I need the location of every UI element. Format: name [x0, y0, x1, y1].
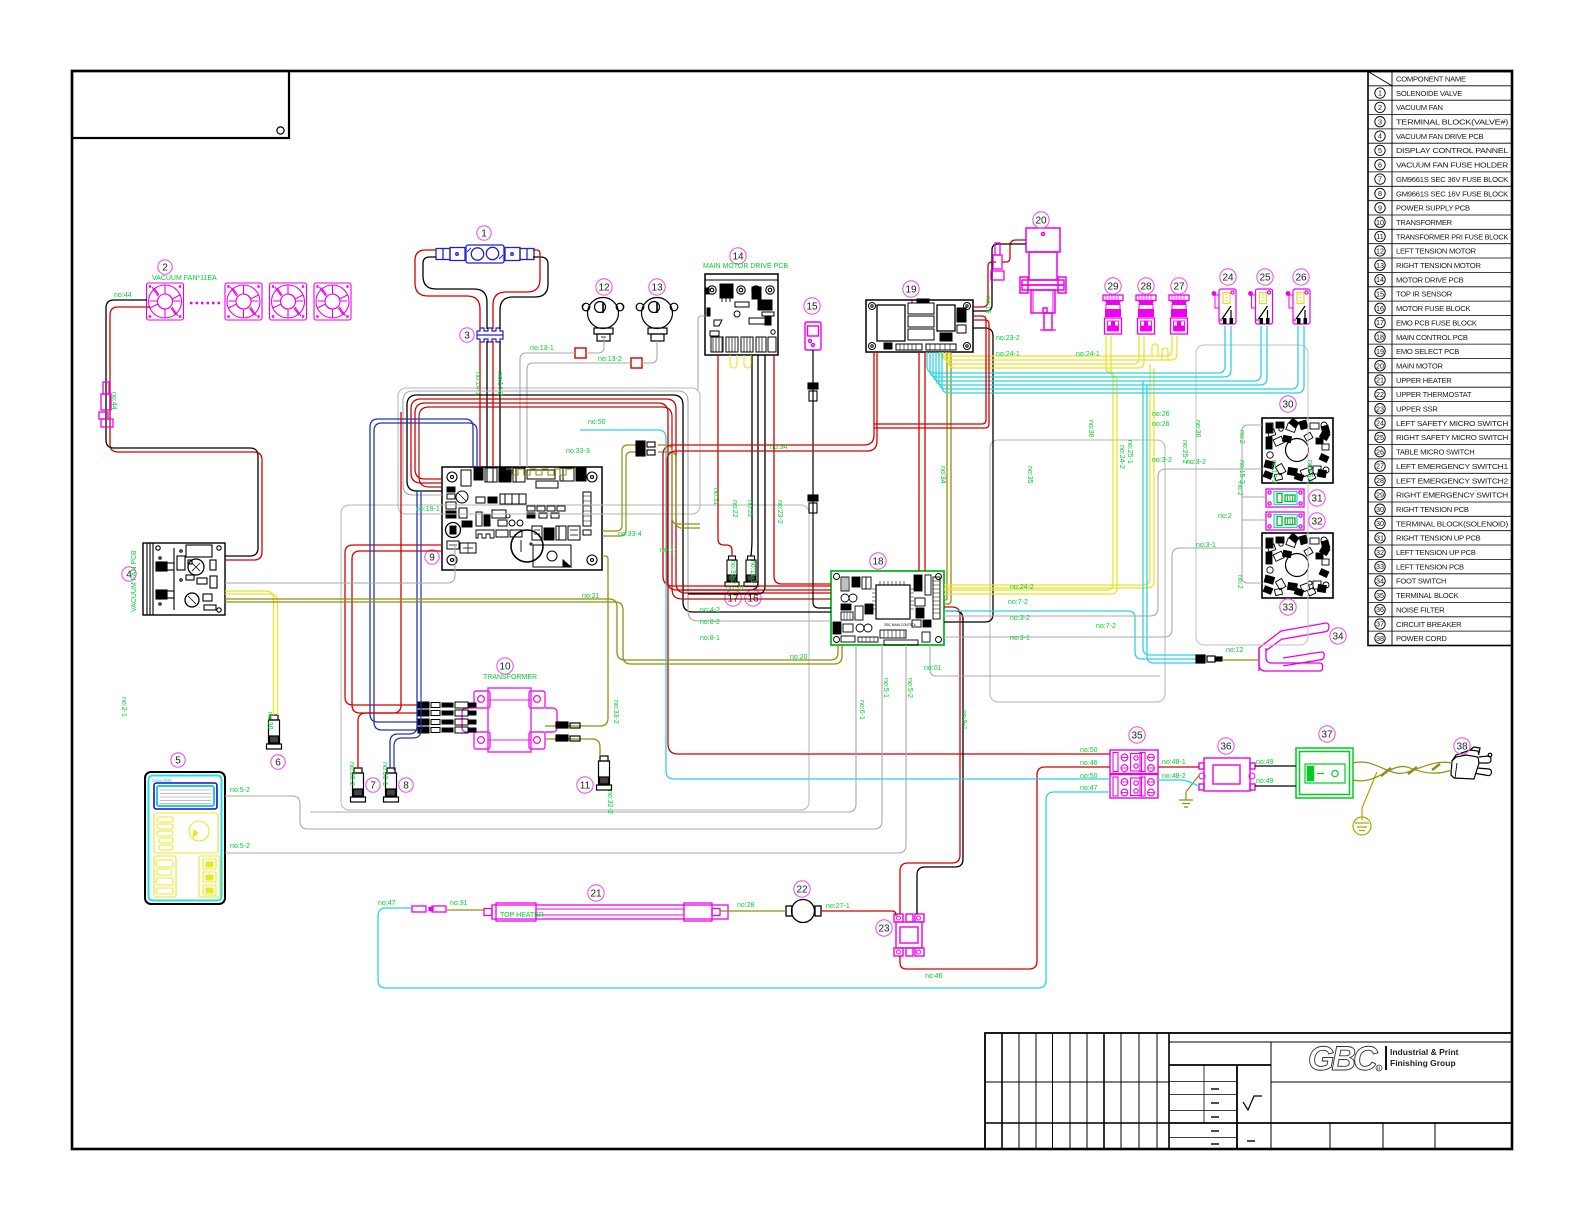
wire no:24-1 yellow b: [943, 336, 1177, 360]
svg-text:UPPER SSR: UPPER SSR: [1396, 405, 1438, 414]
wire pcb14 black pair2: [688, 355, 765, 594]
wire no:25-1 yellow c: [946, 336, 1139, 364]
EMO select PCB (item 19): [866, 299, 973, 352]
svg-text:7: 7: [1378, 175, 1382, 184]
svg-text:no:15-2: no:15-2: [1238, 460, 1245, 484]
svg-text:25: 25: [1259, 272, 1271, 283]
vacuum fan drive PCB (item 4): [143, 543, 225, 615]
wire no:34 red right pair a: [874, 316, 986, 424]
svg-text:no:27-1: no:27-1: [826, 903, 850, 910]
wire no:35 red bundle: [411, 399, 831, 593]
wire no:8-2 gray bundle: [403, 391, 831, 621]
svg-text:no:50: no:50: [1080, 747, 1098, 754]
svg-text:no:24-1: no:24-1: [996, 351, 1020, 358]
svg-text:19: 19: [1376, 347, 1384, 356]
noise filter (item 36): [1199, 758, 1255, 791]
svg-text:31: 31: [1311, 493, 1323, 504]
wire valve red right: [493, 250, 540, 329]
ground symbol near power cord: [1353, 772, 1377, 835]
svg-text:15: 15: [1376, 290, 1384, 299]
wire no:13-1 gray: [225, 545, 455, 583]
balloon 32: [1309, 513, 1325, 529]
right safety micro switch (item 25): [1249, 289, 1273, 324]
svg-text:no:31: no:31: [450, 900, 468, 907]
svg-text:no:3-1: no:3-1: [1196, 542, 1216, 549]
svg-text:LEFT TENSION MOTOR: LEFT TENSION MOTOR: [1396, 247, 1477, 256]
svg-text:no:46: no:46: [1080, 760, 1098, 767]
svg-text:EMO SELECT PCB: EMO SELECT PCB: [1396, 347, 1459, 356]
svg-text:3: 3: [464, 330, 470, 341]
balloon 17: [725, 590, 741, 606]
wire valve red left: [415, 250, 480, 329]
svg-text:no:23-2: no:23-2: [996, 335, 1020, 342]
svg-text:31: 31: [1376, 534, 1384, 543]
power supply PCB (item 9): [442, 467, 602, 570]
balloon 12: [596, 279, 612, 295]
svg-text:26: 26: [1295, 272, 1307, 283]
svg-text:GBC: GBC: [1308, 1040, 1378, 1078]
wire no:35 red D: [924, 352, 926, 571]
foot switch connector: [1196, 655, 1222, 663]
svg-text:13: 13: [1376, 261, 1384, 270]
balloon 4: [122, 567, 136, 581]
wire pcb14 black A: [751, 355, 752, 556]
left tension motor (item 12): [582, 298, 624, 342]
svg-text:R: R: [1377, 1067, 1381, 1073]
wire no:34 red A: [663, 352, 874, 586]
svg-text:no:50: no:50: [1080, 773, 1098, 780]
balloon 14: [730, 248, 746, 264]
main control PCB (item 18): [831, 571, 944, 645]
svg-text:no:3-2: no:3-2: [1152, 457, 1172, 464]
wire motor12 to pcb9: [520, 353, 575, 467]
balloon 37: [1319, 726, 1335, 742]
svg-text:32: 32: [1376, 548, 1384, 557]
svg-text:33: 33: [1376, 562, 1384, 571]
svg-text:no:26: no:26: [1152, 421, 1170, 428]
svg-text:no:15-1: no:15-1: [1306, 460, 1313, 484]
svg-text:no:49: no:49: [1256, 759, 1274, 766]
svg-text:27: 27: [1376, 462, 1384, 471]
left emergency switch1 (item 27): [1169, 295, 1189, 334]
svg-text:no:5-2: no:5-2: [230, 787, 250, 794]
left tension PCB (item 33): [1262, 533, 1333, 598]
svg-text:no:19-1: no:19-1: [416, 506, 440, 513]
green wire number labels: [110, 263, 1313, 980]
enclosure outline A: [398, 388, 700, 514]
wire cyan c1: [927, 326, 1225, 373]
wire no:21 olive A: [225, 599, 838, 660]
svg-text:no:47: no:47: [1080, 785, 1098, 792]
balloon 3: [460, 328, 474, 342]
wire no:33-3 olive B: [602, 452, 636, 536]
wire no:34 red B: [667, 352, 877, 590]
svg-text:6: 6: [275, 757, 281, 768]
svg-text:30: 30: [1282, 399, 1294, 410]
svg-text:34: 34: [1332, 631, 1344, 642]
wire no:2 stub 32: [1242, 519, 1266, 521]
wire yellow loop sw27: [1152, 344, 1158, 356]
wire no:44 black fan: [106, 300, 258, 556]
balloon 24: [1220, 269, 1236, 285]
wire no:14-2 black: [499, 341, 501, 467]
terminal block (item 35): [1110, 750, 1158, 798]
svg-text:RIGHT TENSION PCB: RIGHT TENSION PCB: [1396, 505, 1469, 514]
wire no:12 olive foot: [1222, 659, 1259, 661]
wire no:50 red long: [415, 403, 1110, 754]
transformer (item 10): [462, 688, 557, 752]
svg-text:no:32-2: no:32-2: [606, 790, 613, 814]
svg-text:TERMINAL BLOCK(VALVE#): TERMINAL BLOCK(VALVE#): [1396, 118, 1509, 127]
wire sw29 stub a: [944, 336, 1113, 590]
svg-text:5: 5: [175, 755, 181, 766]
upper thermostat (item 22): [786, 900, 821, 923]
svg-text:TRANSFORMER: TRANSFORMER: [483, 674, 537, 681]
wire no:9-1 black: [917, 611, 963, 914]
motor fuse block (item 16): [744, 556, 758, 587]
svg-text:no:16: no:16: [984, 296, 991, 314]
svg-text:no:44: no:44: [110, 392, 117, 410]
svg-text:TRANSFORMER: TRANSFORMER: [1396, 218, 1453, 227]
balloon 16: [745, 590, 761, 606]
svg-text:FOOT SWITCH: FOOT SWITCH: [1396, 577, 1446, 586]
svg-text:LEFT EMERGENCY SWITCH1: LEFT EMERGENCY SWITCH1: [1396, 462, 1508, 471]
wire no:14-1 black: [486, 341, 488, 467]
wire fuse7 red: [358, 412, 401, 768]
svg-text:9: 9: [1378, 203, 1382, 212]
svg-text:no:14-2: no:14-2: [496, 372, 503, 396]
svg-text:UPPER THERMOSTAT: UPPER THERMOSTAT: [1396, 390, 1472, 399]
svg-text:EMO PCB FUSE BLOCK: EMO PCB FUSE BLOCK: [1396, 318, 1477, 327]
foot switch (item 34): [1259, 623, 1329, 671]
svg-text:no:36: no:36: [1194, 420, 1201, 438]
wire no:12 yellow A: [225, 591, 274, 715]
svg-text:23: 23: [878, 923, 890, 934]
svg-text:VACUUM FAN*11EA: VACUUM FAN*11EA: [152, 275, 217, 282]
top IR sensor (item 15): [805, 322, 821, 350]
GM9661S 16V fuse block (item 8): [384, 768, 399, 802]
svg-text:CIRCUIT BREAKER: CIRCUIT BREAKER: [1396, 620, 1462, 629]
svg-text:no:49: no:49: [1256, 778, 1274, 785]
balloon 22: [794, 881, 810, 897]
svg-text:8: 8: [1378, 189, 1382, 198]
svg-text:no:24-2: no:24-2: [1010, 584, 1034, 591]
svg-text:no:24-2: no:24-2: [1118, 445, 1125, 469]
main motor (item 20): [1020, 228, 1066, 330]
svg-text:no:47: no:47: [378, 900, 396, 907]
svg-text:18: 18: [872, 556, 884, 567]
wire no:24-1 yellow a: [940, 336, 1172, 356]
svg-text:RIGHT TENSION MOTOR: RIGHT TENSION MOTOR: [1396, 261, 1481, 270]
enclosure outline D: [1196, 345, 1308, 645]
svg-text:no:32-2: no:32-2: [729, 560, 736, 584]
heater inline connectors: [412, 906, 446, 912]
svg-text:no:21: no:21: [582, 593, 600, 600]
svg-text:32: 32: [1311, 516, 1323, 527]
svg-text:2: 2: [1378, 103, 1382, 112]
svg-text:no:7-2: no:7-2: [1008, 599, 1028, 606]
component name table: [1368, 72, 1512, 646]
svg-text:13: 13: [651, 282, 663, 293]
wire no:31 olive: [447, 909, 484, 911]
svg-text:RIGHT EMERGENCY SWITCH: RIGHT EMERGENCY SWITCH: [1396, 491, 1508, 500]
svg-text:no:30-1: no:30-1: [381, 762, 388, 786]
svg-text:VACUUM FAN: VACUUM FAN: [1396, 103, 1443, 112]
svg-text:3: 3: [1378, 117, 1382, 126]
component number balloons: [122, 212, 1470, 936]
wire no:14-2 red: [492, 341, 494, 467]
svg-text:no:14-1: no:14-1: [474, 372, 481, 396]
svg-text:no:33-2: no:33-2: [612, 700, 619, 724]
svg-text:no:23-2: no:23-2: [776, 500, 783, 524]
vacuum fan fuse holder (item 6): [267, 715, 282, 749]
wire no:9-1 red: [900, 607, 960, 914]
svg-text:no:22: no:22: [731, 500, 738, 518]
svg-text:TRANSFORMER PRI FUSE BLOCK: TRANSFORMER PRI FUSE BLOCK: [1396, 232, 1508, 241]
svg-text:no:26: no:26: [1152, 411, 1170, 418]
connector square no:13-1: [575, 348, 586, 358]
transformer right connectors: [556, 722, 580, 741]
svg-text:12: 12: [598, 282, 610, 293]
svg-text:MAIN MOTOR: MAIN MOTOR: [1396, 362, 1443, 371]
wire no:33-3 olive A: [602, 445, 636, 531]
wire sw29 stub b: [944, 336, 1117, 594]
wire no:24-2 yellow pair2a: [944, 364, 1150, 585]
left tension up PCB (item 32): [1266, 512, 1304, 530]
svg-text:38: 38: [1456, 741, 1468, 752]
balloon 26: [1293, 269, 1309, 285]
wire no:35 red C: [918, 352, 920, 571]
PCB9 top connector comb: [506, 469, 572, 475]
wire pcb14 yellow hook2: [744, 355, 751, 368]
wire no:16 red b: [1002, 240, 1026, 262]
svg-text:no:33-4: no:33-4: [618, 531, 642, 538]
wire no:2 gray vert: [1242, 425, 1262, 583]
top-left title box: [72, 71, 289, 138]
svg-text:GM9661S SEC 16V FUSE BLOCK: GM9661S SEC 16V FUSE BLOCK: [1396, 189, 1508, 198]
svg-text:33: 33: [1282, 602, 1294, 613]
svg-text:no:48-2: no:48-2: [1162, 773, 1186, 780]
wire no:23-2 black E: [944, 328, 993, 622]
svg-text:no:17: no:17: [660, 547, 678, 554]
svg-text:14: 14: [1376, 275, 1384, 284]
wire fuse8 blue A: [390, 490, 417, 768]
svg-text:UPPER HEATER: UPPER HEATER: [1396, 376, 1452, 385]
svg-text:28: 28: [1140, 281, 1152, 292]
table micro switch (item 26): [1286, 289, 1310, 324]
wire no:36 olive B: [944, 352, 951, 604]
svg-text:no:6-1: no:6-1: [858, 700, 865, 720]
svg-text:24: 24: [1376, 419, 1384, 428]
ground symbol near noise filter: [1179, 774, 1200, 807]
motor inline connector: [991, 243, 1004, 280]
svg-text:no:34: no:34: [939, 466, 946, 484]
wire motor13 wire: [642, 341, 657, 363]
wire no:36 olive A: [944, 352, 947, 600]
svg-text:no:33-3: no:33-3: [566, 448, 590, 455]
wire no:16 red: [973, 262, 996, 307]
wire no:6-1 gray: [310, 645, 856, 812]
svg-text:9: 9: [429, 552, 435, 563]
wire pcb14 red left: [718, 355, 732, 556]
balloon 28: [1138, 278, 1154, 294]
balloon 34: [1330, 628, 1346, 644]
svg-text:MOTOR DRIVE PCB: MOTOR DRIVE PCB: [1396, 275, 1464, 284]
enclosure outline C: [990, 440, 1165, 702]
svg-text:COMPONENT NAME: COMPONENT NAME: [1396, 75, 1466, 84]
svg-text:38: 38: [1376, 634, 1384, 643]
wire no:5-2 gray B: [225, 645, 906, 853]
svg-text:no:44: no:44: [114, 292, 132, 299]
svg-text:29: 29: [1376, 490, 1384, 499]
svg-text:6: 6: [1378, 160, 1382, 169]
svg-text:DISPLAY CONTROL PANNEL: DISPLAY CONTROL PANNEL: [1396, 146, 1508, 155]
svg-text:37: 37: [1376, 620, 1384, 629]
wire no:3-1 gray: [944, 548, 1262, 637]
svg-text:no:12: no:12: [1226, 647, 1244, 654]
svg-text:no:2: no:2: [1218, 513, 1232, 520]
wire motor13 to pcb9: [527, 363, 631, 467]
wire fuse8 blue B: [394, 492, 421, 770]
right tension motor (item 13): [636, 298, 678, 342]
left safety micro switch (item 24): [1212, 289, 1236, 324]
wire no:7-2 cyan down: [1143, 381, 1196, 655]
svg-text:34: 34: [1376, 577, 1384, 586]
svg-text:no:13-2: no:13-2: [598, 356, 622, 363]
svg-text:25: 25: [1376, 433, 1384, 442]
wire pcb14 black pair1: [683, 355, 758, 590]
svg-text:no:8-2: no:8-2: [700, 619, 720, 626]
svg-text:no:48-1: no:48-1: [1162, 759, 1186, 766]
svg-text:22: 22: [1376, 390, 1384, 399]
main motor drive PCB (item 14): [705, 274, 778, 355]
wire no:3-2 gray: [944, 469, 1262, 616]
svg-text:no:30-2: no:30-2: [348, 762, 355, 786]
svg-text:no:35: no:35: [1026, 466, 1033, 484]
svg-text:21: 21: [590, 888, 602, 899]
left columns of title block: [1001, 1033, 1003, 1149]
svg-text:no:5-1: no:5-1: [882, 678, 889, 698]
svg-text:TOP HEATER: TOP HEATER: [500, 912, 544, 919]
svg-text:no:36: no:36: [1087, 420, 1094, 438]
balloon 2: [158, 260, 172, 274]
balloon 21: [588, 885, 604, 901]
svg-text:no:22: no:22: [746, 500, 753, 518]
svg-text:Finishing Group: Finishing Group: [1390, 1058, 1456, 1068]
svg-text:Industrial & Print: Industrial & Print: [1390, 1047, 1459, 1057]
balloon 23: [876, 920, 892, 936]
balloon 13: [649, 279, 665, 295]
svg-text:LEFT EMERGENCY SWITCH2: LEFT EMERGENCY SWITCH2: [1396, 476, 1508, 485]
svg-text:7: 7: [370, 780, 376, 791]
fan wire connector: [99, 382, 113, 427]
terminal block (valve) item 3: [477, 328, 503, 342]
svg-text:LEFT TENSION UP PCB: LEFT TENSION UP PCB: [1396, 548, 1476, 557]
upper SSR (item 23): [894, 914, 924, 956]
balloon 30: [1280, 396, 1296, 412]
svg-text:17: 17: [1376, 318, 1384, 327]
balloon 18: [870, 553, 886, 569]
svg-text:no:7-2: no:7-2: [1096, 623, 1116, 630]
svg-text:11: 11: [1376, 232, 1383, 241]
wire no:4-1 sensor black: [813, 350, 831, 608]
svg-text:15: 15: [806, 301, 818, 312]
svg-text:no:25-1: no:25-1: [1126, 440, 1133, 464]
svg-text:GBC MAIN CONTROL: GBC MAIN CONTROL: [884, 623, 916, 627]
upper heater (item 21): [484, 903, 728, 921]
svg-text:LEFT SAFETY MICRO SWITCH: LEFT SAFETY MICRO SWITCH: [1396, 419, 1508, 428]
wire valve black right: [500, 257, 548, 329]
svg-text:no:2: no:2: [1236, 482, 1243, 496]
svg-text:no:2: no:2: [1236, 575, 1243, 589]
svg-text:no:15-2: no:15-2: [1270, 460, 1277, 484]
svg-text:28: 28: [1376, 476, 1384, 485]
vacuum fan group (item 2): [147, 283, 352, 320]
svg-text:no:2-1: no:2-1: [120, 697, 127, 717]
wire no:14-1 red: [479, 341, 481, 467]
wire darkred bundle: [419, 407, 831, 599]
wire valve black left: [423, 257, 487, 329]
svg-text:no:34: no:34: [770, 444, 788, 451]
svg-text:36: 36: [1220, 741, 1232, 752]
svg-text:2: 2: [162, 262, 168, 273]
left emergency switch2 (item 28): [1136, 295, 1156, 334]
wire no:49 black B: [1255, 785, 1296, 787]
wire cyan c3: [933, 326, 1261, 381]
connector square no:13-2: [631, 358, 642, 368]
balloon 6: [271, 755, 285, 769]
svg-text:20: 20: [1376, 361, 1384, 370]
svg-text:21: 21: [1376, 376, 1384, 385]
wire no:4-2 black bundle: [407, 395, 831, 612]
svg-text:35: 35: [1131, 730, 1143, 741]
balloon 36: [1218, 738, 1234, 754]
middle mini-table: [1169, 1041, 1512, 1043]
wire no:5-2 gray A: [225, 645, 882, 829]
svg-text:LEFT TENSION PCB: LEFT TENSION PCB: [1396, 562, 1464, 571]
power cord plug (item 38): [1451, 747, 1492, 779]
wire no:25-2 yellow d: [949, 336, 1144, 368]
svg-text:RIGHT SAFETY MICRO SWITCH: RIGHT SAFETY MICRO SWITCH: [1396, 433, 1508, 442]
wire no:33-2 olive: [545, 556, 608, 726]
balloon 25: [1257, 269, 1273, 285]
wire no:12 cyan down: [1147, 385, 1196, 663]
wire no:12 yellow B: [225, 594, 278, 715]
svg-text:POWER CORD: POWER CORD: [1396, 634, 1447, 643]
balloon 10: [497, 658, 513, 674]
wire no:17 olive D: [658, 452, 700, 528]
svg-text:VACUUM FAN FUSE HOLDER: VACUUM FAN FUSE HOLDER: [1396, 161, 1509, 170]
svg-text:no:01: no:01: [924, 665, 942, 672]
checkmark: [1243, 1096, 1262, 1110]
svg-text:no:3-1: no:3-1: [1010, 635, 1030, 642]
svg-text:MOTOR FUSE BLOCK: MOTOR FUSE BLOCK: [1396, 304, 1471, 313]
svg-text:29: 29: [1107, 281, 1119, 292]
inline connectors right of PCB9: [636, 441, 655, 456]
wire no:48-1 red: [1158, 766, 1199, 768]
wire pcb14 yellow hook1: [730, 355, 737, 368]
svg-text:MAIN MOTOR DRIVE PCB: MAIN MOTOR DRIVE PCB: [703, 263, 788, 270]
wire no:28 olive: [720, 910, 786, 912]
svg-text:RIGHT TENSION UP PCB: RIGHT TENSION UP PCB: [1396, 534, 1481, 543]
svg-text:no:9-1: no:9-1: [960, 710, 967, 730]
svg-text:4: 4: [1378, 132, 1382, 141]
wire no:48-2 cyan: [1158, 780, 1199, 786]
wire no:27-1 red: [821, 911, 896, 916]
wire cyan c2: [930, 326, 1231, 377]
sensor inline connectors: [808, 383, 818, 513]
svg-text:24: 24: [1222, 272, 1234, 283]
